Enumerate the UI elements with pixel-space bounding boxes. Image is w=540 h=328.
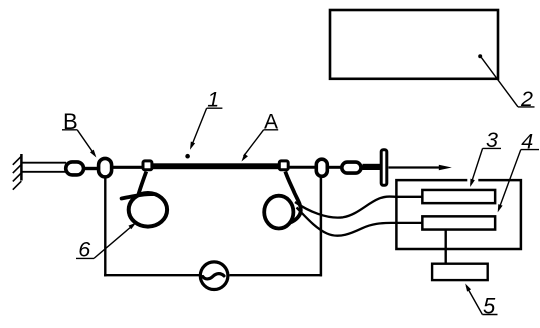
svg-text:1: 1 (207, 88, 219, 112)
svg-text:6: 6 (78, 237, 90, 261)
svg-text:B: B (63, 109, 78, 134)
svg-text:5: 5 (483, 294, 496, 319)
svg-text:4: 4 (521, 130, 533, 154)
svg-text:3: 3 (486, 128, 498, 152)
svg-text:2: 2 (520, 87, 533, 111)
svg-text:A: A (264, 110, 278, 133)
